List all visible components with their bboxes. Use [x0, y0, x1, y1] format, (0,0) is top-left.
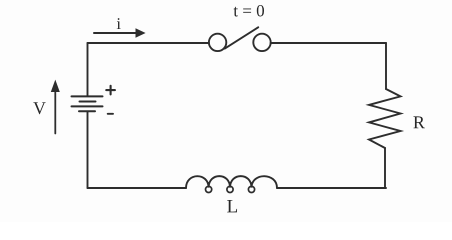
label t = 0	[234, 5, 265, 16]
battery minus sign	[108, 113, 113, 115]
label i	[117, 18, 121, 29]
battery V1 plate 3 long	[72, 105, 103, 107]
current arrow i shaft	[94, 32, 137, 34]
battery V1 plate 1 long	[72, 95, 103, 97]
inductor L coil humps	[186, 176, 277, 188]
inductor L loop 3	[248, 186, 254, 192]
battery V1 plate 4 short	[79, 110, 95, 112]
wire left vertical lower	[87, 112, 89, 189]
voltage arrow V head	[51, 80, 60, 92]
battery V1 plate 2 short	[80, 101, 96, 103]
wire top-left horizontal	[88, 42, 209, 44]
current arrow i head	[136, 28, 146, 38]
label V	[33, 102, 46, 114]
wire bottom-left horizontal	[88, 187, 187, 189]
inductor L loop 1	[206, 186, 212, 192]
wire right vertical upper	[385, 43, 387, 89]
switch S1 blade	[225, 27, 258, 48]
wire left vertical upper	[87, 43, 89, 96]
label L	[227, 200, 237, 212]
resistor R zigzag	[369, 89, 401, 148]
label R	[413, 116, 424, 128]
switch S1 right contact circle	[253, 34, 270, 51]
wire top-right horizontal	[271, 42, 386, 44]
inductor L loop 2	[227, 186, 233, 192]
battery plus sign	[106, 86, 115, 95]
wire right vertical lower	[384, 148, 386, 188]
wire bottom-right horizontal	[277, 187, 386, 189]
voltage arrow V shaft	[54, 84, 56, 134]
switch S1 left contact circle	[209, 34, 226, 51]
